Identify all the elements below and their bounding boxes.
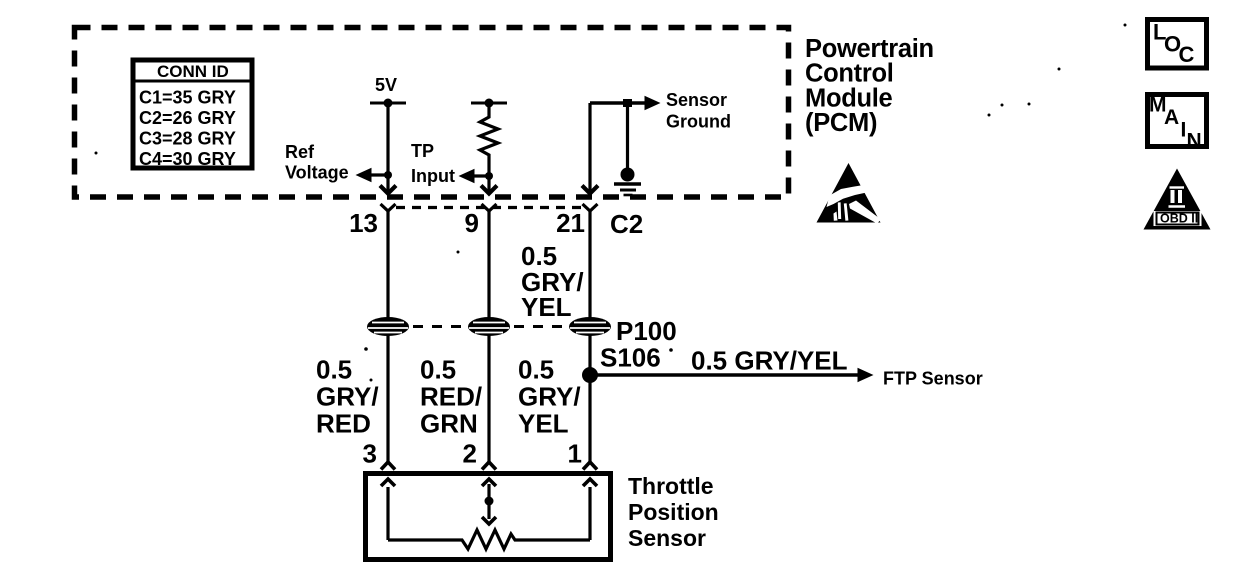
- pin 3 connector Y inverted: [381, 462, 395, 470]
- wire: pin 13 to P100: [386, 211, 389, 319]
- wire: sensor ground vertical to pin 21: [588, 103, 591, 192]
- label 0.5 GRY/YEL (pin 1 wire): [518, 355, 581, 439]
- arrowhead into pin 13: [380, 186, 396, 194]
- svg-text:C1=35 GRY: C1=35 GRY: [139, 88, 236, 108]
- svg-text:YEL: YEL: [518, 409, 569, 439]
- PCM module dashed box: [75, 28, 789, 198]
- svg-text:CONN ID: CONN ID: [157, 62, 229, 81]
- wire col2 P100 to pin 2: [487, 334, 490, 462]
- pin 9 connector Y: [482, 204, 497, 211]
- svg-text:C2: C2: [610, 209, 643, 239]
- svg-text:0.5: 0.5: [518, 355, 554, 385]
- svg-text:0.5 GRY/YEL: 0.5 GRY/YEL: [691, 346, 848, 376]
- Throttle Position Sensor box: [366, 474, 611, 560]
- Throttle Position Sensor label: [628, 473, 719, 551]
- P100 grommet 2: [468, 317, 510, 336]
- svg-text:Control: Control: [805, 60, 894, 88]
- svg-text:Input: Input: [411, 166, 455, 186]
- P100 grommet 1: [367, 317, 409, 336]
- 5V supply rail: [370, 99, 406, 108]
- svg-text:0.5: 0.5: [420, 355, 456, 385]
- ground symbol G108: [614, 103, 641, 195]
- OBD II legend triangle: [1144, 169, 1211, 230]
- svg-text:P100: P100: [616, 316, 677, 346]
- svg-text:3: 3: [363, 439, 377, 469]
- Ref Voltage label: [285, 142, 349, 183]
- splice S106 junction dot: [582, 367, 598, 383]
- svg-text:(PCM): (PCM): [805, 109, 877, 137]
- wire S106 to FTP sensor: [590, 368, 874, 382]
- LOC legend box: [1148, 20, 1207, 69]
- wire col1 P100 to pin 3: [386, 334, 389, 462]
- svg-text:Sensor: Sensor: [666, 90, 727, 110]
- MAIN legend box: [1148, 94, 1207, 153]
- svg-text:GRY/: GRY/: [316, 382, 379, 412]
- svg-text:Voltage: Voltage: [285, 163, 349, 183]
- svg-text:A: A: [1164, 106, 1179, 129]
- svg-text:GRY/: GRY/: [518, 382, 581, 412]
- svg-text:Position: Position: [628, 499, 719, 525]
- pin 2 connector Y inverted: [482, 462, 496, 470]
- wire: resistor to pin 9: [487, 171, 490, 192]
- svg-text:21: 21: [556, 208, 585, 238]
- svg-text:2: 2: [463, 439, 477, 469]
- TP Input arrow: [459, 169, 494, 183]
- svg-text:RED/: RED/: [420, 382, 482, 412]
- TPS resistor element and bottom wire: [388, 530, 590, 549]
- svg-text:RED: RED: [316, 409, 371, 439]
- wire: pin 21 to P100: [588, 211, 591, 319]
- label 0.5 GRY/RED: [316, 355, 379, 439]
- TPS internal left wire with up arrow: [381, 479, 395, 540]
- resistor R zigzag: [480, 103, 498, 171]
- svg-text:C3=28 GRY: C3=28 GRY: [139, 129, 236, 149]
- Ref Voltage arrow: [356, 168, 393, 182]
- svg-text:9: 9: [465, 208, 479, 238]
- TPS wiper double arrow with dot: [482, 479, 496, 524]
- label 0.5 GRY/YEL (pin 21 wire): [521, 241, 584, 322]
- wire col3 P100 to pin 1: [588, 334, 591, 462]
- wire: pin 9 to P100: [487, 211, 490, 319]
- svg-text:FTP Sensor: FTP Sensor: [883, 369, 983, 389]
- svg-text:YEL: YEL: [521, 292, 572, 322]
- P100 dashed link left: [413, 325, 466, 328]
- resistor R top rail: [471, 99, 507, 108]
- svg-text:N: N: [1187, 130, 1202, 153]
- pin 21 connector Y: [583, 204, 598, 211]
- svg-text:13: 13: [349, 208, 378, 238]
- svg-text:Ground: Ground: [666, 112, 731, 132]
- svg-text:TP: TP: [411, 141, 434, 161]
- svg-text:C: C: [1179, 42, 1195, 67]
- svg-text:0.5: 0.5: [316, 355, 352, 385]
- ESD sensitive device symbol: [817, 163, 882, 224]
- connector C2 dashed interface line: [396, 206, 585, 209]
- svg-text:Sensor: Sensor: [628, 525, 706, 551]
- svg-text:C4=30 GRY: C4=30 GRY: [139, 149, 236, 169]
- svg-text:1: 1: [568, 439, 582, 469]
- svg-text:Throttle: Throttle: [628, 473, 714, 499]
- P100 dashed link right: [514, 325, 567, 328]
- TPS internal right wire with up arrow: [583, 479, 597, 540]
- CONN ID table: [133, 60, 252, 169]
- label 0.5 RED/GRN: [420, 355, 482, 439]
- arrowhead into pin 9: [481, 186, 497, 194]
- Powertrain Control Module (PCM) label: [805, 35, 934, 137]
- P100 grommet 3: [569, 317, 611, 336]
- pin 1 connector Y inverted: [583, 462, 597, 470]
- Sensor Ground label: [666, 90, 731, 132]
- svg-text:C2=26 GRY: C2=26 GRY: [139, 108, 236, 128]
- pin 13 connector Y: [381, 204, 396, 211]
- svg-text:S106: S106: [600, 343, 661, 373]
- svg-text:OBD II: OBD II: [1160, 212, 1198, 226]
- svg-text:I: I: [1181, 119, 1187, 142]
- svg-text:GRN: GRN: [420, 409, 478, 439]
- TP Input label: [411, 141, 455, 186]
- Sensor Ground arrow: [590, 96, 661, 110]
- svg-text:Ref: Ref: [285, 142, 315, 162]
- svg-text:5V: 5V: [375, 75, 397, 95]
- arrowhead into pin 21: [582, 186, 598, 194]
- scan noise dots: [95, 24, 1127, 382]
- wire: 5V rail to pin 13: [386, 103, 389, 192]
